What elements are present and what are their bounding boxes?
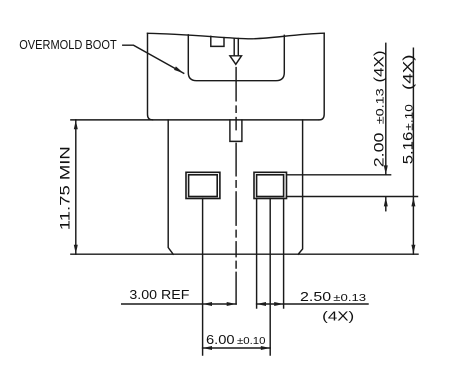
svg-text:3.00 REF: 3.00 REF	[129, 287, 189, 302]
svg-text:5.16: 5.16	[399, 131, 415, 164]
svg-text:(4X): (4X)	[399, 55, 415, 91]
svg-text:2.50: 2.50	[300, 289, 331, 304]
svg-text:±.10: ±.10	[403, 104, 415, 130]
svg-text:6.00: 6.00	[206, 332, 235, 347]
svg-text:±0.13: ±0.13	[333, 293, 366, 304]
svg-text:11.75 MIN: 11.75 MIN	[57, 146, 73, 230]
svg-text:±0.13: ±0.13	[375, 88, 387, 124]
svg-text:±0.10: ±0.10	[237, 336, 266, 347]
svg-text:(4X): (4X)	[322, 309, 354, 324]
svg-text:(4X): (4X)	[371, 51, 387, 83]
svg-text:OVERMOLD BOOT: OVERMOLD BOOT	[19, 37, 117, 52]
svg-text:2.00: 2.00	[371, 132, 387, 167]
